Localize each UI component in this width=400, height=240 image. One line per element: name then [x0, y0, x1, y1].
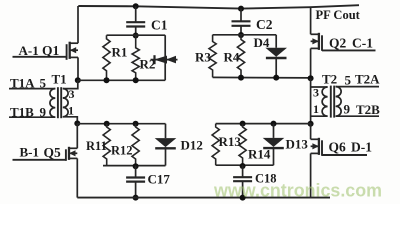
svg-text:A-1: A-1: [19, 43, 39, 58]
svg-text:D-1: D-1: [351, 140, 372, 155]
svg-text:R2: R2: [140, 57, 156, 72]
svg-text:D13: D13: [286, 137, 309, 152]
svg-text:1: 1: [68, 104, 74, 118]
svg-text:R3: R3: [195, 50, 211, 65]
svg-text:www.cntronics.com: www.cntronics.com: [213, 180, 382, 201]
svg-text:T1: T1: [52, 72, 67, 87]
svg-text:R4: R4: [224, 50, 240, 65]
svg-text:C-1: C-1: [352, 36, 373, 51]
svg-text:C17: C17: [148, 172, 171, 187]
svg-text:B-1: B-1: [20, 145, 40, 160]
svg-text:T2B: T2B: [356, 102, 380, 117]
svg-text:T2: T2: [322, 72, 337, 87]
svg-text:R11: R11: [86, 139, 107, 153]
svg-text:R14: R14: [248, 147, 271, 162]
svg-text:Q2: Q2: [329, 36, 347, 51]
svg-text:Q6: Q6: [329, 140, 347, 155]
svg-text:C1: C1: [151, 18, 168, 33]
svg-text:Q5: Q5: [44, 145, 62, 160]
svg-text:1: 1: [313, 102, 319, 116]
svg-text:D12: D12: [181, 138, 203, 153]
svg-text:R12: R12: [111, 144, 133, 158]
svg-text:R1: R1: [112, 45, 128, 60]
svg-text:C2: C2: [256, 17, 273, 32]
svg-text:T2A: T2A: [355, 72, 380, 87]
svg-text:PF Cout: PF Cout: [316, 8, 361, 22]
svg-text:9: 9: [344, 102, 351, 117]
svg-text:R13: R13: [219, 134, 242, 149]
svg-text:D4: D4: [254, 35, 270, 50]
svg-text:Q1: Q1: [42, 43, 60, 58]
svg-text:5: 5: [345, 73, 352, 88]
